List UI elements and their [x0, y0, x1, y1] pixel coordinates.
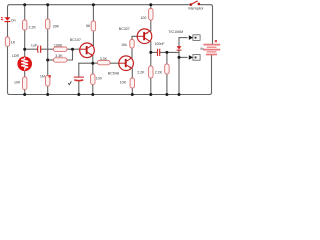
svg-text:10K: 10K — [14, 81, 21, 85]
svg-text:BC107: BC107 — [70, 38, 81, 42]
svg-text:BC548: BC548 — [108, 72, 119, 76]
svg-text:BC327: BC327 — [119, 27, 130, 31]
svg-text:56: 56 — [86, 24, 90, 28]
svg-text:10K: 10K — [120, 81, 127, 85]
svg-text:Interruptor: Interruptor — [188, 6, 204, 10]
svg-text:2.2K: 2.2K — [155, 71, 163, 75]
svg-text:100: 100 — [140, 16, 146, 20]
svg-text:10k: 10k — [121, 43, 127, 47]
svg-text:100: 100 — [96, 77, 102, 81]
svg-text:2.2K: 2.2K — [137, 71, 145, 75]
svg-text:9v: 9v — [200, 47, 204, 51]
svg-text:3.3K: 3.3K — [100, 57, 108, 61]
svg-text:1uF: 1uF — [31, 44, 38, 48]
svg-text:On: On — [11, 18, 16, 22]
svg-text:TIC106M: TIC106M — [168, 30, 183, 34]
svg-text:100K: 100K — [54, 44, 63, 48]
svg-text:3.3K: 3.3K — [55, 54, 63, 58]
svg-text:39K: 39K — [53, 25, 60, 29]
svg-text:1M: 1M — [40, 75, 45, 79]
svg-text:100nF: 100nF — [154, 42, 165, 46]
svg-text:2.2K: 2.2K — [29, 26, 37, 30]
svg-text:1K: 1K — [11, 40, 16, 44]
svg-text:LDR: LDR — [12, 54, 20, 58]
